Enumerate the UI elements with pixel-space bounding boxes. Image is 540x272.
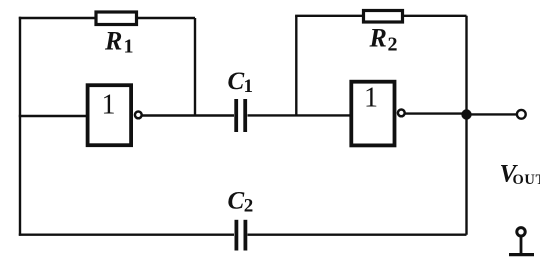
svg-text:1: 1 xyxy=(124,36,134,58)
svg-text:OUT: OUT xyxy=(513,172,540,188)
svg-text:1: 1 xyxy=(364,82,378,113)
svg-text:C: C xyxy=(228,68,245,95)
svg-text:2: 2 xyxy=(388,34,398,56)
svg-text:1: 1 xyxy=(102,90,116,121)
svg-text:C: C xyxy=(228,188,245,215)
svg-text:R: R xyxy=(104,27,122,56)
svg-text:2: 2 xyxy=(244,196,254,217)
svg-text:1: 1 xyxy=(244,76,254,97)
svg-text:R: R xyxy=(369,24,387,53)
